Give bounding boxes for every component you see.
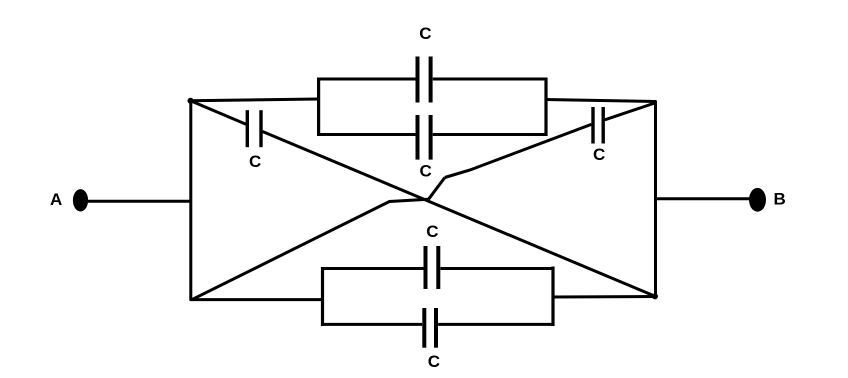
wire right rail to B (655, 197, 751, 200)
label C (top box, upper) (419, 24, 431, 43)
wire top box left edge (317, 78, 320, 137)
wire diagonal B (capacitor to top-right corner) (605, 103, 655, 120)
label C (top box, lower) (420, 162, 432, 181)
capacitor C (on diagonal A) (247, 110, 261, 147)
wire top box top-left lead (317, 78, 416, 81)
left rail wire (189, 100, 192, 301)
capacitor C (top box, lower) (418, 115, 431, 160)
node B (749, 188, 766, 212)
svg-text:C: C (249, 152, 261, 171)
svg-text:C: C (420, 162, 432, 181)
wire top left (rail to top box) (190, 99, 319, 101)
junction dot top-left corner (188, 98, 194, 104)
capacitor C (on diagonal B) (593, 107, 603, 144)
wire diagonal A (upper-left lead to capacitor) (191, 101, 247, 125)
wire bottom box top-left lead (321, 267, 424, 270)
label B (774, 190, 786, 209)
label C (bottom box, lower) (428, 352, 440, 371)
wire top box bottom-right lead (433, 133, 548, 136)
wire diagonal B (hop to capacitor) (445, 124, 592, 177)
wire bottom right (bottom box to rail) (552, 295, 657, 299)
wire bottom box top-right lead (440, 267, 554, 270)
junction dot bottom-right corner (652, 293, 658, 299)
svg-text:C: C (419, 24, 431, 43)
capacitor C (top box, upper) (418, 57, 431, 103)
label C (bottom box, upper) (426, 222, 438, 241)
wire bottom left (rail to bottom box) (190, 298, 324, 301)
wire bottom box bottom-right lead (438, 323, 554, 326)
wire diagonal B crossover hop (429, 178, 445, 200)
node A (73, 189, 88, 211)
svg-text:A: A (50, 190, 62, 209)
wire bottom box right edge (551, 267, 554, 327)
wire bottom box bottom-left lead (321, 323, 422, 326)
wire top box bottom-left lead (317, 133, 416, 136)
label C (diagonal B capacitor) (593, 145, 605, 164)
label C (diagonal A capacitor) (249, 152, 261, 171)
svg-text:B: B (774, 190, 786, 209)
wire top box right edge (544, 78, 547, 137)
wire A to left rail (86, 200, 191, 203)
wire top box top-right lead (433, 78, 548, 81)
wire bottom box left edge (321, 267, 324, 326)
wire diagonal A (capacitor to bottom-right corner) (263, 132, 656, 297)
capacitor C (bottom box, lower) (424, 308, 436, 348)
wire diagonal B lower segment (bottom-left corner up to crossover) (192, 199, 429, 299)
label A (50, 190, 62, 209)
capacitor C (bottom box, upper) (426, 246, 439, 289)
svg-text:C: C (426, 222, 438, 241)
svg-text:C: C (428, 352, 440, 371)
right rail wire (654, 101, 657, 298)
wire top right (top box to rail) (545, 100, 657, 102)
svg-text:C: C (593, 145, 605, 164)
